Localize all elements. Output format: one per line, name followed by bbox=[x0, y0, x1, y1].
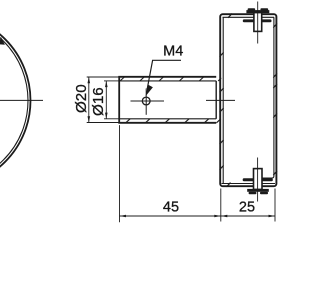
svg-text:Ø16: Ø16 bbox=[90, 87, 107, 116]
svg-text:45: 45 bbox=[163, 200, 179, 216]
svg-text:M4: M4 bbox=[163, 44, 183, 60]
svg-text:Ø20: Ø20 bbox=[73, 84, 90, 113]
svg-text:25: 25 bbox=[239, 200, 255, 216]
